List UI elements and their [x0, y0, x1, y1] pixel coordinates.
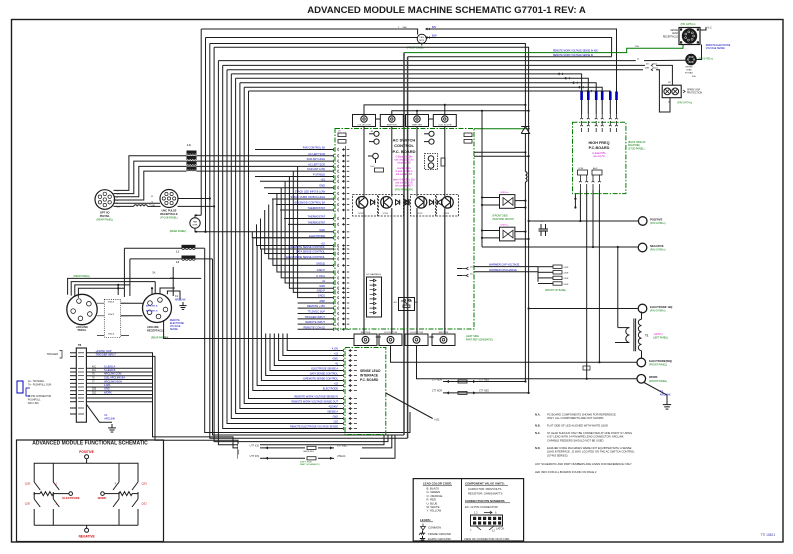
svg-text:REMOTE: REMOTE — [170, 320, 180, 322]
svg-text:GND: GND — [332, 416, 338, 419]
svg-text:LED: LED — [371, 166, 375, 168]
wire to HF board pin — [236, 78, 589, 114]
svg-text:ARCLINK: ARCLINK — [175, 299, 186, 302]
svg-text:GND P: GND P — [317, 268, 325, 272]
work terminal — [637, 375, 646, 384]
svg-text:CAPACITOR: MFD/VOLTS: CAPACITOR: MFD/VOLTS — [468, 487, 502, 491]
svg-text:5A: 5A — [152, 272, 155, 275]
svg-text:41E/41F: 41E/41F — [329, 406, 339, 409]
svg-text:P STABLE: P STABLE — [313, 173, 325, 177]
svg-text:PART REF SCHEMATIC): PART REF SCHEMATIC) — [466, 338, 493, 341]
pigtail wire 21 — [644, 59, 686, 61]
svg-text:(REAR PANEL): (REAR PANEL) — [73, 275, 90, 278]
svg-text:41: 41 — [322, 279, 325, 283]
T1 transformer — [641, 312, 643, 320]
AC switch control PC board outline — [335, 129, 474, 330]
negative output terminal — [638, 243, 647, 252]
svg-text:G7528: G7528 — [358, 213, 363, 215]
T1 primary feed wire — [617, 247, 619, 328]
switch 2 — [53, 495, 59, 525]
svg-text:EMITTER: EMITTER — [387, 125, 397, 127]
work node — [101, 492, 105, 496]
fan wires — [201, 29, 417, 35]
svg-text:CTT NEG: CTT NEG — [479, 379, 489, 381]
svg-text:LATCH: LATCH — [496, 527, 504, 531]
svg-text:STACK: STACK — [108, 333, 115, 336]
sense lead pigtail — [686, 54, 696, 64]
wire bundle vertical to sense row — [244, 87, 343, 403]
switch Q30 — [34, 495, 40, 525]
opto feeder vertical — [481, 111, 483, 247]
svg-text:S7 LEAD SHOULD ONLY BE CONNECT: S7 LEAD SHOULD ONLY BE CONNECTED AT ONE … — [547, 431, 632, 435]
svg-text:B/W: B/W — [432, 35, 437, 38]
svg-text:REMOTE WORK VOLTAGE SENSE IN 4: REMOTE WORK VOLTAGE SENSE IN 41E — [553, 50, 598, 53]
common symbol — [421, 524, 426, 531]
mid driver left — [373, 153, 379, 159]
wire bundle vertical to sense row — [249, 91, 344, 399]
terminal box COLLECTOR — [353, 115, 376, 127]
svg-text:ELECTRODE: ELECTRODE — [62, 496, 79, 500]
svg-text:4B1: 4B1 — [394, 302, 397, 304]
svg-text:P.C. BOARD: P.C. BOARD — [360, 378, 379, 382]
wires bottom boxes to electrode and work — [391, 346, 638, 363]
svg-text:PROTECTION: PROTECTION — [687, 93, 702, 95]
SCR diodes — [371, 200, 375, 205]
svg-text:REMOTE INPUT: REMOTE INPUT — [305, 320, 325, 324]
svg-text:SENSE: SENSE — [685, 67, 693, 69]
svg-text:CONTROL: CONTROL — [394, 143, 414, 148]
svg-text:WORK: WORK — [98, 496, 107, 500]
svg-text:B/N: B/N — [152, 205, 156, 207]
svg-text:STACK CURR ON BUS HIGH: STACK CURR ON BUS HIGH — [290, 195, 325, 199]
svg-text:LEAD INTERFACE. J2 WAS LOCATE: LEAD INTERFACE. J2 WAS LOCATED ON THE AC… — [547, 450, 635, 454]
svg-text:LEADS:: LEADS: — [420, 518, 431, 522]
SCR module Q4 — [437, 195, 459, 217]
right resistor — [119, 492, 132, 496]
svg-text:TRIGGER INPUT: TRIGGER INPUT — [305, 315, 326, 319]
svg-text:THERMOSTAT: THERMOSTAT — [308, 220, 326, 224]
electrode 19Q feed — [529, 308, 638, 310]
svg-text:(P/N G4789-x): (P/N G4789-x) — [650, 310, 666, 313]
receptacle top wires — [117, 285, 119, 295]
driver transistors top-left pair — [374, 131, 379, 136]
P6 wires right and down to CT links — [86, 353, 262, 448]
CT jumper row 2 — [262, 457, 305, 459]
wire to HF board pin — [231, 74, 581, 114]
svg-text:CTT NOR: CTT NOR — [432, 379, 443, 381]
svg-text:GND: GND — [319, 284, 325, 288]
svg-text:4B: 4B — [668, 82, 671, 84]
fan pigtail — [190, 218, 200, 228]
spark gap protection — [662, 85, 681, 98]
svg-text:(FRONT OF BASE): (FRONT OF BASE) — [545, 289, 566, 292]
svg-text:TRIGGER: TRIGGER — [47, 353, 59, 356]
L1 L2 verticals to lower rails — [205, 248, 410, 432]
wire bundle verticals to lower rails — [210, 44, 408, 439]
svg-text:T1: T1 — [645, 334, 649, 338]
svg-text:2 → SA2: 2 → SA2 — [398, 26, 408, 29]
arclink receptacle connector — [143, 294, 172, 323]
advanced module functional schematic box — [17, 440, 164, 542]
svg-text:LEAD COLOR CODE:: LEAD COLOR CODE: — [423, 482, 452, 486]
svg-text:SCR ANT HIGH: SCR ANT HIGH — [307, 157, 326, 161]
pushpull link symbol — [17, 381, 23, 393]
svg-text:PART SCHEMATIC): PART SCHEMATIC) — [300, 463, 320, 466]
positive feed wire — [529, 220, 639, 222]
svg-text:COMPONENT VALUE UNITS:: COMPONENT VALUE UNITS: — [465, 482, 505, 486]
ND callout line — [386, 393, 433, 419]
svg-text:COM: COM — [578, 168, 583, 170]
svg-text:WORK: WORK — [649, 375, 658, 379]
svg-text:K ON: K ON — [332, 348, 338, 351]
svg-text:+15: +15 — [334, 353, 339, 356]
svg-text:ARCLINK: ARCLINK — [660, 394, 671, 397]
svg-text:1 2: 1 2 — [474, 511, 478, 515]
svg-text:C6: C6 — [338, 131, 341, 133]
svg-text:4BN → SB21: 4BN → SB21 — [645, 68, 659, 70]
wires from top boxes upward — [364, 105, 525, 115]
svg-text:NEGATIVE: NEGATIVE — [650, 244, 664, 248]
svg-text:FAN CONTROL 5A: FAN CONTROL 5A — [303, 146, 326, 150]
svg-text:SENSE LEAD: SENSE LEAD — [360, 369, 381, 373]
svg-text:ANY SCHEMATIC AND PART NUMBERS: ANY SCHEMATIC AND PART NUMBERS ARE GIVEN… — [535, 462, 632, 466]
mid driver right with box — [425, 154, 438, 170]
svg-text:FLAT SIDE OF LED ALIGNED WITH: FLAT SIDE OF LED ALIGNED WITH WHITE LEAD — [547, 424, 608, 428]
short bundle wires to upper sense rows — [266, 334, 343, 376]
svg-text:L1: L1 — [176, 250, 180, 254]
svg-text:(LEFT PANEL): (LEFT PANEL) — [653, 337, 668, 340]
svg-text:FAN: FAN — [420, 36, 425, 39]
svg-text:(P/N G4753-x): (P/N G4753-x) — [698, 59, 713, 61]
svg-text:+15: +15 — [321, 177, 326, 181]
svg-text:(G7463 SERIES).: (G7463 SERIES). — [547, 453, 568, 457]
pigtail to receptacle wires — [114, 202, 161, 204]
R snubber right — [441, 158, 445, 166]
svg-text:AMP: AMP — [319, 299, 325, 303]
warmer resistor stack — [553, 265, 562, 268]
svg-text:N.A.: N.A. — [535, 413, 541, 417]
arclink pedal connector — [67, 294, 97, 324]
svg-text:(P/N G4789-x): (P/N G4789-x) — [650, 249, 666, 252]
svg-text:ONLY. ALL COMPONENTS ARE NOT: ONLY. ALL COMPONENTS ARE NOT SHOWN. — [547, 416, 604, 420]
bus B vertical — [528, 111, 530, 393]
CT jumper row 1 — [262, 447, 305, 449]
wire bundle vertical to sense row — [257, 246, 343, 386]
remote work voltage sense lines — [404, 45, 683, 53]
svg-text:7: 7 — [470, 529, 472, 533]
electrode WQ terminal — [637, 358, 646, 367]
svg-text:21C: 21C — [470, 273, 474, 275]
NC stub — [700, 27, 706, 30]
svg-text:CTT NOR: CTT NOR — [432, 391, 443, 393]
top nested bundle horizontals — [218, 60, 635, 62]
terminal box COLLECTOR — [433, 115, 456, 127]
svg-text:P.C. BOARD: P.C. BOARD — [392, 149, 415, 154]
svg-text:REMOTE ELECTRODE VOLTAGE SENSE: REMOTE ELECTRODE VOLTAGE SENSE — [290, 426, 338, 429]
wire bundle vertical to sense row — [236, 78, 343, 413]
svg-text:+15VDC SUP: +15VDC SUP — [96, 349, 112, 353]
svg-text:left overlaid 4/7: left overlaid 4/7 — [396, 173, 413, 176]
svg-text:A S7 LEAD WITH 14 PIN/WIRE LEA: A S7 LEAD WITH 14 PIN/WIRE LEAD CONNECTO… — [547, 435, 624, 439]
svg-text:left overlaid 45 7: left overlaid 45 7 — [395, 185, 413, 188]
svg-text:Q28: Q28 — [25, 482, 31, 486]
driver transistors top-right pair — [429, 131, 434, 136]
svg-text:STACK LED INFO B LOW: STACK LED INFO B LOW — [295, 190, 326, 194]
svg-text:COMMON: COMMON — [428, 526, 441, 530]
svg-text:(FRONT PANEL): (FRONT PANEL) — [649, 380, 667, 383]
top box link wires — [376, 118, 381, 120]
svg-text:TTL5VDC SUP: TTL5VDC SUP — [307, 310, 325, 314]
connector DPT I/O pigtail — [95, 190, 115, 210]
main center vertical pair — [403, 53, 405, 435]
svg-text:21A: 21A — [635, 45, 639, 48]
svg-text:ARCLINK B: ARCLINK B — [146, 310, 158, 313]
svg-text:(P/N G4789-x): (P/N G4789-x) — [650, 222, 666, 225]
electrode node — [69, 492, 73, 496]
svg-text:AC LEFT SCR: AC LEFT SCR — [308, 152, 325, 156]
svg-text:PIGTAIL: PIGTAIL — [685, 72, 694, 75]
AC board right edge warmer pins — [462, 267, 469, 270]
extended row wires from bundle — [253, 237, 333, 239]
svg-text:STT EEC: STT EEC — [337, 445, 347, 448]
svg-text:L3: L3 — [187, 143, 191, 147]
bus diode D5 — [524, 105, 526, 127]
svg-text:N.C.: N.C. — [708, 27, 713, 30]
svg-text:ELECTRODE(WQ): ELECTRODE(WQ) — [649, 359, 672, 363]
receptacle right wires to ground — [160, 288, 175, 294]
short row stubs lower — [298, 302, 333, 304]
svg-text:7A - PUSHPULL GUN: 7A - PUSHPULL GUN — [28, 383, 52, 386]
svg-text:RECEPTACLE: RECEPTACLE — [663, 35, 679, 38]
bus inductor L4 — [525, 172, 527, 182]
connector UNC PULSE receptacle — [160, 190, 178, 208]
svg-text:RESISTOR: OHMS/WATTS: RESISTOR: OHMS/WATTS — [468, 492, 503, 496]
high freq PC board outline — [573, 122, 626, 193]
dotted link box — [104, 299, 120, 337]
svg-text:ADVANCED MODULE FUNCTIONAL SCH: ADVANCED MODULE FUNCTIONAL SCHEMATIC — [32, 441, 148, 447]
svg-text:(FRONT PANEL): (FRONT PANEL) — [649, 364, 667, 367]
svg-text:DATA SENSE CONTROL: DATA SENSE CONTROL — [310, 373, 339, 376]
svg-text:ARCLINK: ARCLINK — [104, 418, 115, 421]
svg-text:ARC LINK: ARC LINK — [28, 402, 39, 405]
svg-text:VOLTAGE SENSE: VOLTAGE SENSE — [706, 47, 725, 50]
svg-text:(REAR PANEL): (REAR PANEL) — [97, 218, 114, 221]
svg-text:SENSE A: SENSE A — [327, 411, 338, 414]
svg-text:1: 1 — [56, 482, 58, 486]
svg-text:PEDAL: PEDAL — [78, 328, 87, 332]
svg-text:L2: L2 — [176, 260, 180, 264]
switch Q28 — [34, 478, 40, 495]
svg-text:LEAD: LEAD — [686, 69, 692, 72]
svg-text:G7516-x: G7516-x — [500, 225, 509, 227]
svg-text:CTT NEG: CTT NEG — [479, 391, 489, 393]
svg-text:12: 12 — [492, 529, 495, 533]
opto triac ISO2 — [500, 227, 515, 241]
svg-text:MTR: MTR — [419, 40, 424, 42]
wire fan bundle to pigtail — [200, 29, 202, 215]
svg-text:ELECTRODE SENSE CONTROL: ELECTRODE SENSE CONTROL — [286, 255, 325, 259]
AC board inner green pin strip — [345, 146, 347, 329]
svg-text:STACK: STACK — [108, 300, 115, 303]
HF board top pins — [580, 114, 583, 132]
svg-text:REMOTE WORK VOLTAGE SENSE IN: REMOTE WORK VOLTAGE SENSE IN — [294, 396, 338, 399]
svg-text:GND: GND — [319, 228, 325, 232]
svg-text:ARCLINK A: ARCLINK A — [146, 305, 158, 308]
svg-text:(P/N G4754-x): (P/N G4754-x) — [681, 24, 696, 26]
svg-text:NEGATIVE: NEGATIVE — [79, 534, 95, 538]
svg-text:B/N: B/N — [432, 26, 436, 29]
wire to HF board pin — [244, 87, 602, 114]
jumper caps on AC board edges — [338, 133, 346, 137]
svg-text:EARLIER CODE MACHINES WERE NOT: EARLIER CODE MACHINES WERE NOT EQUIPPED … — [547, 446, 632, 450]
svg-text:REMOTE ELECTRODE: REMOTE ELECTRODE — [706, 45, 731, 47]
negative feed wire — [482, 246, 638, 248]
fan pigtail wires — [195, 215, 201, 218]
svg-text:P.C.BOARD: P.C.BOARD — [589, 146, 610, 150]
svg-text:REMOTE COM 52: REMOTE COM 52 — [304, 325, 326, 329]
legend box — [413, 479, 523, 541]
green extension line — [474, 128, 530, 130]
svg-text:fireplace x/5: fireplace x/5 — [398, 161, 412, 164]
wire to HF board pin — [249, 91, 611, 114]
wire bundle vertical to sense row — [223, 65, 343, 428]
svg-text:EX: 12 PIN CONNECTOR: EX: 12 PIN CONNECTOR — [465, 505, 498, 509]
sense lead interface PC board — [345, 348, 386, 435]
svg-text:240R: 240R — [564, 273, 569, 275]
svg-text:ELECTRODE 19Q: ELECTRODE 19Q — [650, 305, 672, 309]
svg-text:N.D.: N.D. — [435, 417, 441, 421]
svg-text:N.B.: N.B. — [692, 76, 697, 78]
bottom box link wires — [376, 336, 381, 338]
svg-text:REMOTE WORK VOLTAGE SENSE IN: REMOTE WORK VOLTAGE SENSE IN — [553, 54, 593, 57]
svg-text:POSITIVE: POSITIVE — [79, 450, 94, 454]
opto wires — [482, 197, 500, 199]
svg-text:GND P: GND P — [317, 288, 325, 292]
SCR module Q3 — [411, 195, 436, 217]
svg-text:N.B.: N.B. — [535, 424, 541, 428]
svg-text:G.P HARNESS: G.P HARNESS — [366, 273, 381, 276]
svg-text:FRAME GROUND: FRAME GROUND — [428, 532, 451, 536]
svg-text:ELECTRODE: ELECTRODE — [309, 234, 325, 238]
svg-text:EMITTER: EMITTER — [412, 125, 422, 127]
svg-text:LED INFO FOR ALL BOARDS FOUND: LED INFO FOR ALL BOARDS FOUND ON PAGE 2 — [535, 470, 597, 474]
wire bundle vertical to sense row — [240, 83, 343, 409]
svg-text:ELECTRODE: ELECTRODE — [323, 388, 339, 391]
LED D1 — [375, 168, 384, 172]
svg-text:NDL: NDL — [165, 337, 170, 339]
svg-text:UTT IOS: UTT IOS — [250, 445, 260, 448]
svg-text:SPARK GAP: SPARK GAP — [687, 89, 701, 92]
svg-text:+15: +15 — [334, 383, 339, 386]
svg-text:SCR ANT LOW: SCR ANT LOW — [307, 167, 325, 171]
svg-text:AC LEFT SCR: AC LEFT SCR — [308, 162, 325, 166]
svg-text:use only 5x: use only 5x — [593, 156, 605, 158]
svg-text:LEAD: LEAD — [672, 32, 678, 35]
svg-text:ELECTRODE SENSE A: ELECTRODE SENSE A — [311, 368, 338, 371]
GP harness connector J5 — [367, 277, 382, 317]
svg-text:ADVANCED MODULE MACHINE SCHEMA: ADVANCED MODULE MACHINE SCHEMATIC G7701-… — [307, 5, 586, 16]
work to C1 arclink ground — [644, 383, 667, 401]
svg-text:REMOTE WORK VOLTAGE SENSE OUT: REMOTE WORK VOLTAGE SENSE OUT — [292, 401, 339, 404]
SCR module Q2 — [379, 195, 404, 217]
CTT jumper row 1 — [443, 381, 525, 383]
svg-text:CONNECTOR PIN NUMBERS: CONNECTOR PIN NUMBERS — [465, 499, 505, 503]
svg-text:6: 6 — [495, 511, 497, 515]
L1 L2 wires — [124, 247, 181, 249]
HF board bottom connectors — [578, 170, 588, 175]
svg-text:21E: 21E — [334, 421, 339, 424]
svg-text:DATA SENSE CONTROL: DATA SENSE CONTROL — [296, 250, 326, 254]
electrode 19Q terminal — [638, 304, 647, 313]
svg-text:VOLTAGE: VOLTAGE — [170, 325, 181, 328]
left resistor — [34, 494, 40, 495]
svg-text:21: 21 — [637, 59, 640, 61]
bus feed lines from bundle — [210, 44, 526, 105]
svg-text:(LEFT SIDE: (LEFT SIDE — [300, 462, 312, 464]
svg-text:POSITIVE: POSITIVE — [650, 218, 663, 222]
terminal box EMITTER — [380, 115, 403, 127]
svg-text:WARMER CAP VOLTAGE: WARMER CAP VOLTAGE — [489, 263, 520, 267]
svg-text:K ON A: K ON A — [316, 274, 325, 278]
svg-text:(P/N G4774-x): (P/N G4774-x) — [677, 103, 692, 105]
svg-text:UTELIC: UTELIC — [337, 455, 346, 458]
svg-text:W: W — [151, 196, 154, 198]
wire bundle vertical to sense row — [253, 238, 343, 391]
switch Q29 — [132, 478, 138, 495]
bottom rail and negative node — [34, 524, 138, 526]
wire bundle vertical to sense row — [261, 249, 343, 381]
receptacle to pigtail wire — [696, 45, 701, 60]
svg-text:VIEW OF CONNECTOR ON P.C.BD.: VIEW OF CONNECTOR ON P.C.BD. — [464, 537, 510, 541]
svg-text:CABLE NEG: CABLE NEG — [303, 450, 314, 453]
svg-text:STACK: STACK — [108, 313, 115, 316]
SCR module Q1 — [353, 195, 378, 217]
svg-text:240R: 240R — [564, 284, 569, 286]
svg-text:RECEPTACLE: RECEPTACLE — [160, 212, 178, 216]
inner bundle corner wires — [252, 232, 333, 238]
svg-text:HIGH FREQ: HIGH FREQ — [588, 141, 609, 145]
svg-text:PIGTAIL: PIGTAIL — [100, 214, 110, 218]
svg-text:G7528: G7528 — [383, 213, 388, 215]
svg-text:Q29: Q29 — [142, 482, 148, 486]
svg-text:G4767-x: G4767-x — [654, 334, 664, 336]
svg-text:P6: P6 — [78, 343, 82, 347]
svg-text:COLLECTOR: COLLECTOR — [438, 125, 452, 127]
svg-text:AC SWITCH: AC SWITCH — [393, 138, 416, 143]
svg-text:4B: 4B — [668, 102, 671, 104]
positive output terminal — [638, 217, 647, 226]
svg-text:GND: GND — [319, 184, 325, 188]
pedal-receptacle wires — [121, 302, 143, 304]
svg-text:GND: GND — [332, 358, 338, 361]
svg-text:240R: 240R — [564, 278, 569, 280]
NDL wire — [164, 320, 354, 339]
svg-text:4B: 4B — [371, 131, 374, 133]
wire to HF board pin — [240, 83, 596, 114]
wire bundle vertical to sense row — [227, 70, 343, 424]
svg-text:AUX: AUX — [593, 167, 598, 170]
svg-text:N.D.: N.D. — [535, 446, 541, 450]
switch Q32 — [132, 495, 138, 525]
svg-text:EARTH GROUND: EARTH GROUND — [428, 537, 451, 541]
svg-text:G-board 5/5x: G-board 5/5x — [592, 152, 606, 155]
svg-text:240R: 240R — [564, 267, 569, 269]
svg-text:REMOTE +15V: REMOTE +15V — [307, 304, 325, 308]
svg-text:G7528: G7528 — [417, 213, 422, 215]
svg-text:TTI 10821: TTI 10821 — [760, 533, 775, 537]
svg-text:Q30: Q30 — [25, 502, 31, 506]
svg-text:Y. YELLOW: Y. YELLOW — [427, 509, 442, 513]
